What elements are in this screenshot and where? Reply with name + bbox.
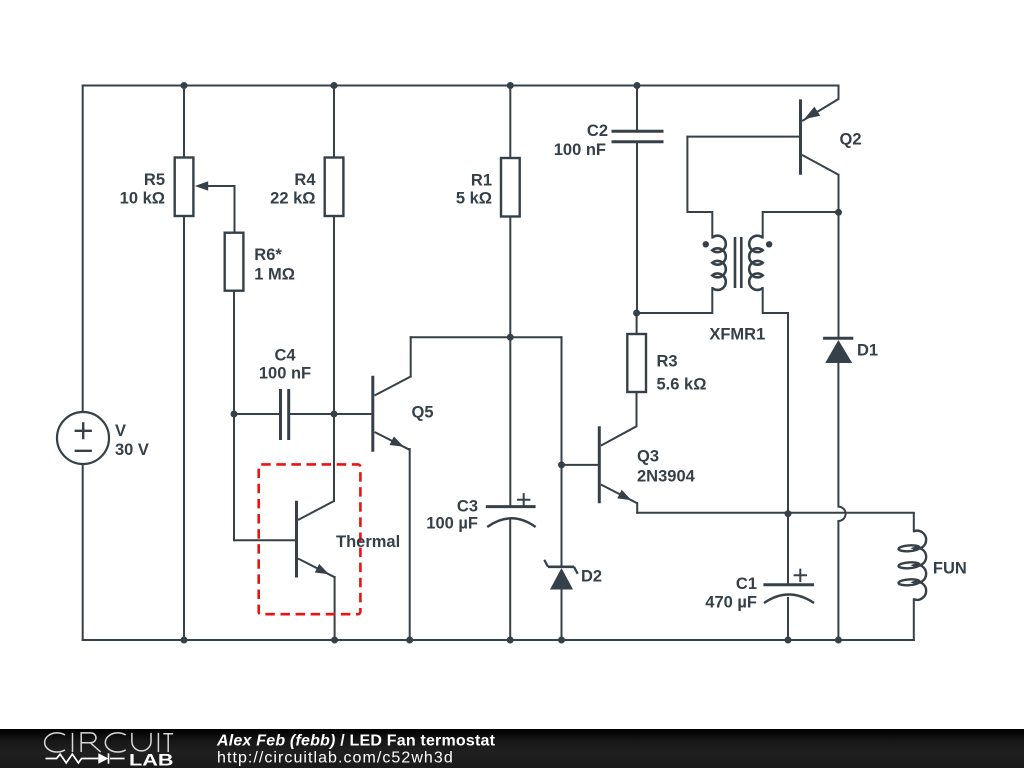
transistor Q3: [599, 426, 637, 503]
wire top rail: [83, 85, 839, 87]
logo resistor-diode glyph: [46, 753, 125, 763]
wire C3 bottom leg: [509, 520, 511, 640]
wire thermal base: [234, 539, 295, 541]
wire C2 top leg: [636, 86, 638, 131]
wire Q2 collector drop: [838, 175, 840, 213]
wire R1 bottom leg to C3: [509, 216, 511, 505]
wire R5 bottom leg: [183, 216, 185, 640]
node C2/R3/XFMR: [633, 310, 640, 317]
node top rail R5: [181, 82, 188, 89]
wire D2 bottom: [561, 590, 563, 641]
wire bottom rail: [83, 639, 914, 641]
node bottom R5: [181, 637, 188, 644]
svg-text:LAB: LAB: [129, 751, 174, 768]
wire R5 top leg: [183, 86, 185, 158]
resistor R5 (pot body): [175, 158, 194, 217]
svg-text:470 µF: 470 µF: [705, 594, 757, 612]
resistor R6: [225, 233, 244, 291]
svg-text:Q3: Q3: [637, 448, 659, 466]
svg-text:http://circuitlab.com/c52wh3d: http://circuitlab.com/c52wh3d: [217, 750, 454, 767]
resistor R3: [627, 334, 646, 392]
wire D2 anode top: [561, 465, 563, 566]
node C1 top: [785, 510, 792, 517]
wire R4 bottom leg to thermal collector: [333, 216, 335, 501]
svg-text:C1: C1: [736, 575, 757, 593]
svg-text:XFMR1: XFMR1: [709, 326, 765, 344]
node bottom C1: [785, 637, 792, 644]
wire FUN top leg: [913, 514, 915, 532]
resistor R4: [325, 158, 344, 217]
wire C2 bottom leg: [636, 143, 638, 313]
svg-text:Q5: Q5: [412, 404, 434, 422]
footer bar: [0, 729, 1024, 768]
resistor R1: [501, 158, 520, 217]
svg-text:R4: R4: [294, 171, 316, 189]
svg-text:R6*: R6*: [254, 246, 282, 264]
node R1/collector wire: [507, 334, 514, 341]
wire Q2 base: [687, 136, 798, 138]
XFMR core lines: [735, 237, 741, 288]
wire R6 bottom leg: [233, 291, 235, 541]
diode D1: [823, 338, 853, 363]
XFMR primary winding: [712, 236, 726, 290]
wire R3 top leg: [636, 313, 638, 334]
wire thermal emitter drop: [334, 577, 336, 640]
svg-text:FUN: FUN: [933, 560, 967, 578]
wire Q3 emitter drop: [636, 503, 638, 513]
node top rail C2: [634, 82, 641, 89]
svg-text:22 kΩ: 22 kΩ: [270, 190, 315, 208]
wire Q5 collector to D2 node: [411, 336, 562, 338]
wire emitter rail to FUN: [637, 512, 914, 514]
svg-text:D1: D1: [857, 342, 878, 360]
svg-text:V: V: [115, 422, 126, 440]
wire Q3 base: [562, 464, 598, 466]
logo CIRCUIT letters: [45, 733, 173, 752]
wire XFMR primary bottom: [637, 288, 713, 313]
wire C1 bottom leg: [787, 598, 789, 640]
node top rail R4: [331, 82, 338, 89]
XFMR secondary winding: [749, 236, 763, 290]
wire D2 node drop: [561, 337, 563, 465]
svg-text:100 µF: 100 µF: [426, 515, 478, 533]
svg-text:R3: R3: [657, 353, 678, 371]
wire pot wiper: [208, 186, 235, 233]
svg-text:100 nF: 100 nF: [259, 365, 311, 383]
XFMR phase dot left: [703, 241, 709, 247]
wire XFMR primary top: [687, 137, 712, 238]
inductor FUN: [898, 531, 926, 600]
zener diode D2: [544, 560, 577, 590]
pot arrow R5: [195, 181, 208, 190]
node top rail R1: [507, 82, 514, 89]
wire C4 right (Q5 base): [290, 413, 371, 415]
wire left rail lower: [82, 464, 84, 640]
svg-text:C3: C3: [457, 498, 478, 516]
node Q3 base / D2: [558, 461, 565, 468]
svg-text:5 kΩ: 5 kΩ: [456, 190, 492, 208]
transformer XFMR1: [712, 236, 762, 290]
node bottom D2: [558, 637, 565, 644]
wire Q5 emitter drop: [409, 449, 411, 640]
svg-text:30 V: 30 V: [115, 441, 149, 459]
transistor Q2 (PNP): [801, 99, 839, 174]
transistor Q5: [373, 376, 411, 452]
wire XFMR secondary top: [763, 212, 839, 238]
wire R1 top leg: [509, 86, 511, 159]
XFMR phase dot right: [766, 241, 772, 247]
svg-text:D2: D2: [581, 568, 602, 586]
capacitor C3: [486, 493, 536, 527]
wire R3 bottom leg: [636, 392, 638, 426]
svg-text:Thermal: Thermal: [336, 533, 400, 551]
node bottom C3: [507, 637, 514, 644]
transistor thermal (in dashed box): [297, 501, 335, 578]
capacitor C4 plates: [281, 389, 289, 440]
svg-text:C4: C4: [274, 347, 296, 365]
voltage source V: [57, 412, 109, 464]
wire C1 top leg: [787, 514, 789, 584]
svg-text:1 MΩ: 1 MΩ: [254, 266, 295, 284]
svg-text:2N3904: 2N3904: [637, 468, 696, 486]
node C4/R6: [231, 411, 238, 418]
svg-text:R5: R5: [144, 171, 165, 189]
wire left rail upper: [82, 86, 84, 413]
node bottom Q5 emitter: [406, 637, 413, 644]
svg-text:Alex Feb (febb) / LED Fan term: Alex Feb (febb) / LED Fan termostat: [216, 733, 496, 750]
wire XFMR secondary bottom: [763, 288, 788, 513]
thermal dashed red box: [259, 464, 361, 614]
node bottom thermal emitter: [331, 637, 338, 644]
svg-text:10 kΩ: 10 kΩ: [120, 190, 165, 208]
node C4/R4: [331, 411, 338, 418]
svg-text:C2: C2: [587, 122, 608, 140]
wire C4 left: [234, 413, 279, 415]
capacitor C2 plates: [612, 131, 664, 142]
logo diode triangle: [98, 753, 108, 763]
svg-text:100 nF: 100 nF: [554, 141, 606, 159]
node bottom D1: [835, 637, 842, 644]
wire D1 top leg: [838, 212, 840, 338]
wire D1 bottom leg with hop over emitter rail: [838, 363, 845, 640]
wire Q5 collector riser: [410, 337, 412, 376]
svg-text:R1: R1: [471, 172, 492, 190]
svg-text:Q2: Q2: [840, 131, 862, 149]
svg-text:5.6 kΩ: 5.6 kΩ: [657, 376, 707, 394]
wire Q2 emitter top: [803, 86, 839, 121]
capacitor C1: [763, 569, 814, 603]
wire FUN bottom leg: [913, 599, 915, 640]
node Q2 emitter / D1 / XFMR: [835, 209, 842, 216]
wire R4 top leg: [333, 86, 335, 158]
